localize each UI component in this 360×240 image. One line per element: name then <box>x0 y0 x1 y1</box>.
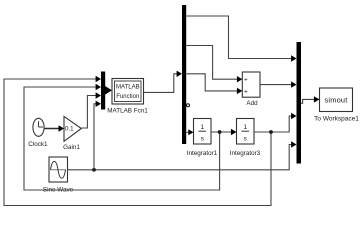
clock Clock1 <box>28 118 48 148</box>
wire Demux out2 to Add input 1 <box>186 46 242 83</box>
gain Gain1 value 0.1 <box>63 116 81 151</box>
svg-text:Add: Add <box>246 100 258 107</box>
wire Gain1 to Mux input 3 <box>81 92 101 128</box>
wire MATLAB Fcn1 to Demux input <box>144 71 183 93</box>
integrator Integrator3 <box>230 119 261 158</box>
wire Add to Mux2 input 2 <box>260 81 297 87</box>
wire Clock1 to Gain1 <box>44 125 64 131</box>
svg-text:To Workspace1: To Workspace1 <box>314 116 359 123</box>
svg-text:+: + <box>244 77 248 84</box>
wire sine junction to Mux input 4 <box>94 101 101 170</box>
wire feedback Integrator1 to Mux input 2 <box>24 84 220 190</box>
svg-text:Gain1: Gain1 <box>63 144 80 151</box>
port circle unconnected demux output <box>187 104 190 107</box>
wire Mux2 to To Workspace1 <box>301 96 320 103</box>
to-workspace block simout / To Workspace1 <box>314 88 359 123</box>
svg-text:Function: Function <box>116 94 139 100</box>
wire Integrator3 to Mux2 input 3 <box>254 113 297 132</box>
wire Demux out1 to Mux2 input 1 <box>186 16 296 62</box>
svg-text:1: 1 <box>243 124 247 131</box>
wire Demux out3 to Add input 2 <box>186 74 242 94</box>
wire Sine Wave to Mux2 input 4 <box>68 141 297 170</box>
wire feedback Integrator3 to Mux input 1 <box>4 76 271 206</box>
wire Mux1 to MATLAB Fcn1 <box>105 86 112 95</box>
MATLAB function block U: MATLAB Fcn1 <box>107 79 148 115</box>
svg-text:Integrator1: Integrator1 <box>187 150 218 157</box>
wire Integrator1 to Integrator3 <box>211 129 237 135</box>
junction dot Integrator1 output <box>218 130 222 134</box>
svg-text:simout: simout <box>325 95 348 104</box>
svg-text:Integrator3: Integrator3 <box>230 150 261 157</box>
svg-text:MATLAB: MATLAB <box>116 84 140 90</box>
mux Mux1 (4-input bar) <box>101 72 105 110</box>
junction dot Integrator3 output <box>269 130 273 134</box>
sine-wave block Sine Wave <box>43 157 74 194</box>
svg-text:+: + <box>244 89 248 96</box>
mux Mux2 (right bar) <box>297 42 302 164</box>
integrator Integrator1 <box>187 119 218 158</box>
svg-text:MATLAB Fcn1: MATLAB Fcn1 <box>107 108 148 115</box>
svg-text:1: 1 <box>200 124 204 131</box>
junction dot sine line <box>92 168 96 172</box>
wire Demux out4 to Integrator1 <box>186 129 193 135</box>
svg-text:0.1: 0.1 <box>65 126 74 133</box>
sum block Add <box>242 72 260 107</box>
demux Demux1 (tall bar) <box>182 5 186 144</box>
svg-text:Clock1: Clock1 <box>28 141 48 148</box>
